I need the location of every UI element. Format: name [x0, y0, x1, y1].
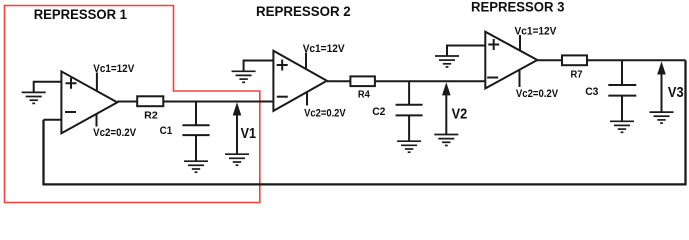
U3 Vc1 supply pin: [519, 35, 521, 51]
U3 plus sign: [488, 39, 499, 50]
svg-text:R7: R7: [571, 69, 583, 81]
U1 Vc1 supply pin: [96, 73, 98, 92]
svg-text:Vc2=0.2V: Vc2=0.2V: [516, 88, 559, 100]
wire node V3: R7 to feedback corner: [587, 59, 686, 61]
ground at U1 + input: [22, 92, 46, 103]
wire U3 output to R7: [537, 59, 562, 61]
U2 Vc2 supply pin: [306, 93, 308, 106]
svg-text:REPRESSOR 2: REPRESSOR 2: [256, 4, 351, 19]
svg-text:Vc2=0.2V: Vc2=0.2V: [93, 127, 137, 139]
U1 plus sign: [66, 78, 77, 89]
ground below V3 arrow: [650, 112, 674, 123]
capacitor C2: [396, 81, 423, 141]
global feedback wire: V3 node down, across bottom, up to U1 inverting input: [44, 60, 686, 184]
svg-text:Vc2=0.2V: Vc2=0.2V: [304, 107, 346, 119]
U2 plus sign: [277, 60, 288, 71]
U2 Vc1 supply pin: [305, 53, 307, 70]
ground below V1 arrow: [225, 154, 249, 165]
wire op-amp U1 non-inverting input to ground: [34, 82, 62, 93]
resistor R4: [350, 76, 375, 86]
U1 minus sign: [65, 111, 76, 113]
ground below C3: [610, 121, 634, 132]
wire node V2: R4 to op-amp U3 inverting input: [375, 80, 485, 82]
U2 minus sign: [277, 96, 288, 98]
svg-text:V3: V3: [668, 84, 684, 101]
op-amp U2: [273, 51, 327, 111]
capacitor C3: [608, 60, 636, 121]
voltage arrow V2: [442, 82, 451, 134]
voltage arrow V1: [233, 102, 242, 154]
wire U1 output to R2: [117, 101, 137, 103]
U1 Vc2 supply pin: [96, 114, 98, 127]
capacitor C1: [182, 102, 209, 162]
wire op-amp U2 non-inverting input to ground: [244, 61, 274, 72]
ground below C2: [397, 141, 421, 152]
red highlight box around repressor 1: [5, 6, 260, 203]
ground below V2 arrow: [434, 135, 458, 146]
resistor R2: [137, 96, 163, 106]
U3 Vc2 supply pin: [519, 71, 521, 88]
voltage arrow V3: [657, 61, 666, 112]
ground at U2 + input: [232, 71, 256, 82]
svg-text:REPRESSOR 3: REPRESSOR 3: [471, 0, 565, 14]
op-amp U1: [61, 71, 117, 133]
svg-text:C1: C1: [160, 125, 173, 137]
wire node V1: R2 to op-amp U2 inverting input: [163, 101, 273, 103]
resistor R7: [562, 55, 587, 65]
svg-text:R2: R2: [144, 109, 158, 121]
svg-text:C3: C3: [585, 86, 598, 98]
svg-text:Vc1=12V: Vc1=12V: [515, 25, 558, 37]
wire U1 inverting input: [44, 119, 62, 121]
svg-text:Vc1=12V: Vc1=12V: [93, 63, 135, 75]
svg-text:V2: V2: [452, 106, 468, 123]
svg-text:R4: R4: [358, 89, 370, 101]
ground below C1: [184, 161, 208, 172]
svg-text:Vc1=12V: Vc1=12V: [303, 43, 346, 55]
ground at U3 + input: [435, 56, 459, 67]
U3 minus sign: [487, 77, 498, 79]
op-amp U3: [485, 32, 537, 89]
wire U2 output to R4: [327, 80, 351, 82]
wire op-amp U3 non-inverting input to ground: [447, 46, 485, 57]
svg-text:V1: V1: [241, 125, 256, 142]
svg-text:REPRESSOR 1: REPRESSOR 1: [34, 7, 128, 22]
svg-text:C2: C2: [372, 106, 385, 118]
